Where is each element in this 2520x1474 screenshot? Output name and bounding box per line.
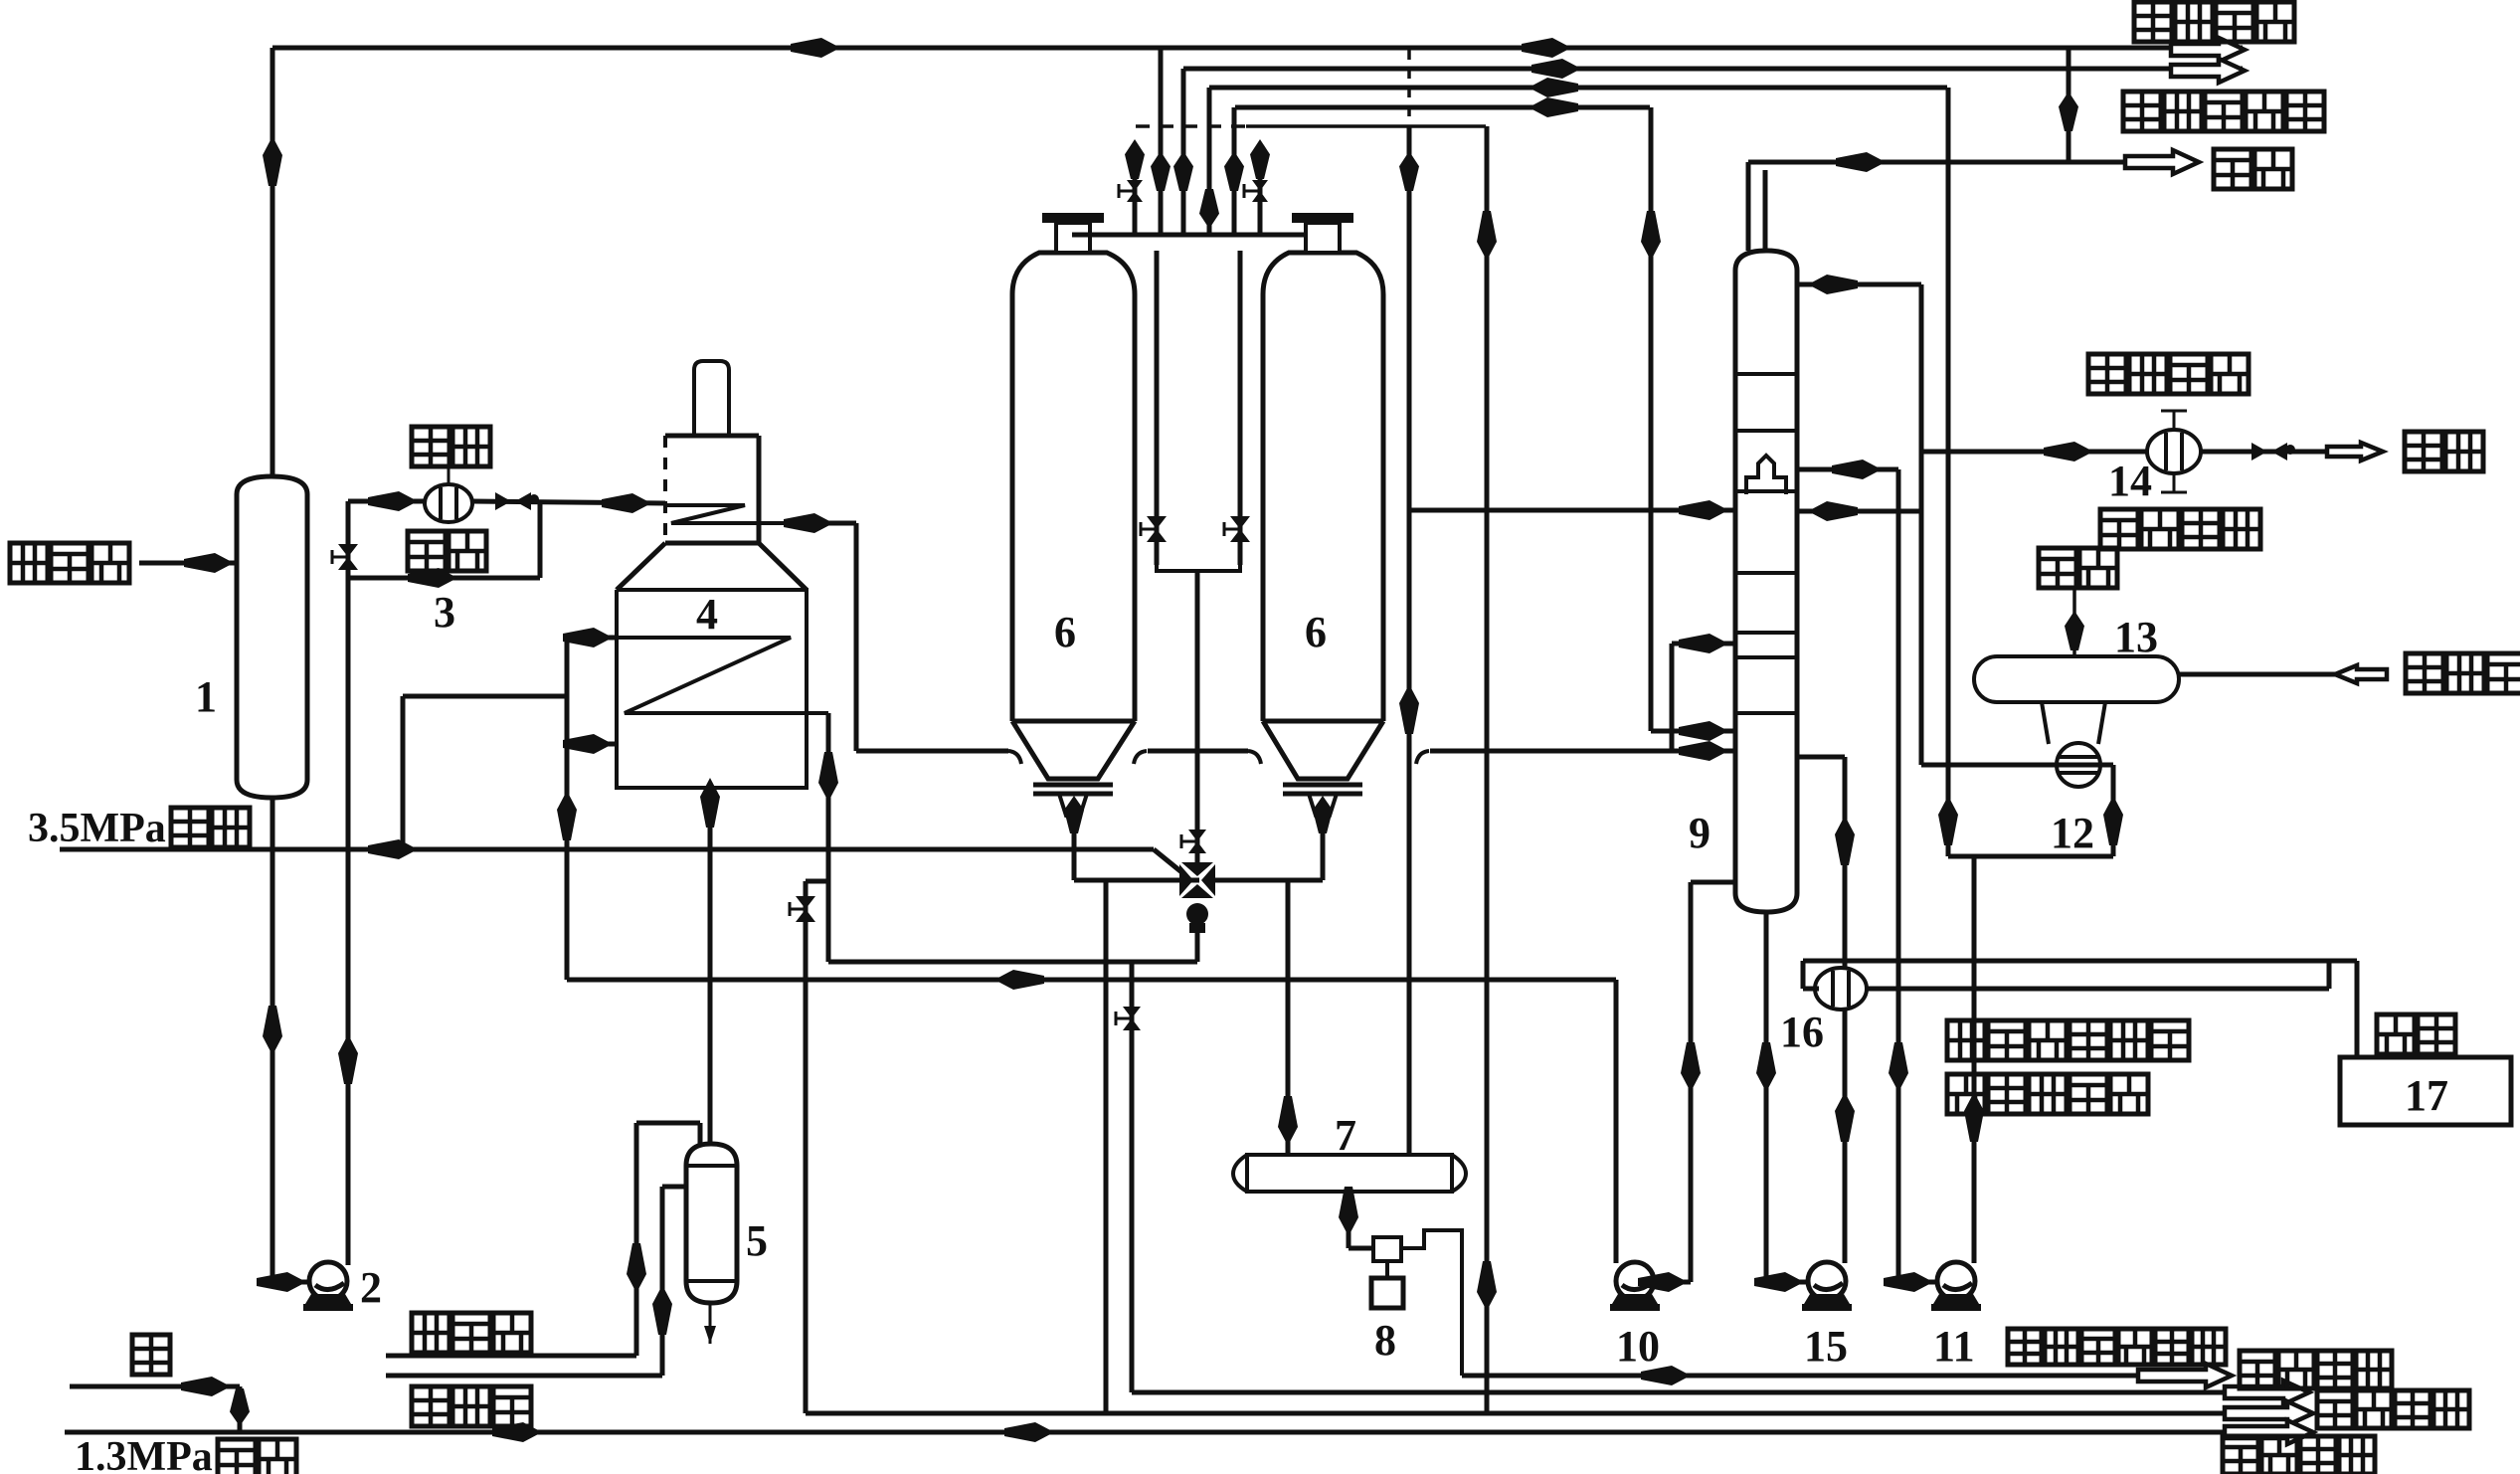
- flow arrow up on x570: [557, 791, 577, 840]
- pump 2: [309, 1262, 347, 1300]
- flow arrow down x1216: [1199, 189, 1219, 229]
- riser x1190 to L2: [1181, 69, 1186, 235]
- svg-text:4: 4: [696, 590, 718, 639]
- label 蒸汽 above exchanger 3: [412, 427, 490, 466]
- label 澄清油 (clarified oil): [10, 543, 129, 583]
- riser with valve x1267: [1258, 145, 1263, 235]
- wire relief header line L5 (dashed left part): [1136, 124, 1246, 128]
- flow arrow into column y286: [1808, 275, 1858, 294]
- wire exchanger3 outlet to furnace: [472, 501, 665, 503]
- wire furnace second burner feed: [567, 742, 617, 747]
- wire flare riser x640: [634, 1123, 639, 1356]
- vessel 1 (feed buffer drum): [237, 476, 307, 798]
- wire vertical x1932: [1919, 284, 1924, 765]
- wire column top return y286: [1797, 282, 1921, 287]
- pump 10: [1616, 1262, 1654, 1300]
- flow arrow on L4 (left): [1529, 97, 1578, 117]
- flow arrow feed: [184, 553, 234, 573]
- flow arrow on L2: [1531, 59, 1581, 79]
- label 蒸汽 above drum13: [2039, 548, 2117, 588]
- wire transfer line segment A: [856, 749, 1008, 754]
- wire four-way bottom drop: [1195, 933, 1200, 962]
- wire oil-gas line y163: [1748, 160, 2125, 165]
- wire pump11 discharge riser x1985: [1972, 856, 1977, 1263]
- wire drum top manifold header: [1072, 233, 1305, 238]
- column overhead pipe: [1746, 162, 1751, 251]
- svg-text:14: 14: [2108, 457, 2152, 505]
- outlet hollow arrow wax: [2327, 443, 2383, 461]
- wire 3.5MPa steam line: [60, 847, 1154, 852]
- heat exchanger 16: [1815, 968, 1867, 1010]
- label 去安全阀线: [2123, 92, 2324, 131]
- wire dashed stub at x1417 to L1: [1407, 50, 1411, 126]
- outlet hollow arrow Ld: [2225, 1420, 2313, 1444]
- wire vessel1 overhead line to L1: [270, 48, 275, 476]
- wire drum7 feed x1298: [1286, 880, 1291, 1155]
- svg-text:11: 11: [1933, 1322, 1975, 1371]
- wire vertical x1417 (L5 to drum7): [1407, 126, 1412, 1155]
- wire well bottom: [1157, 565, 1197, 577]
- label 去火炬: [412, 1313, 531, 1353]
- wire furnace left feed header x570: [565, 638, 570, 980]
- flow arrow Ld left: [492, 1422, 542, 1442]
- wire pump2 discharge riser x350: [346, 501, 351, 1265]
- wire exch12 outlet loop: [2100, 763, 2113, 768]
- wire drop x1138 to burn-off line: [1130, 962, 1135, 1392]
- flow arrow up x2080: [2059, 92, 2078, 131]
- wire water line: [70, 1384, 240, 1389]
- vessel 5: [686, 1144, 737, 1303]
- wire slurry drop x2370: [2355, 961, 2360, 1057]
- valve in well left: [1147, 516, 1167, 529]
- flow arrow on draw y472: [1832, 460, 1882, 479]
- wire pump11 suction drop x1909: [1896, 469, 1901, 1282]
- wire convection outlet down x861: [796, 521, 856, 526]
- four-way switch valve: [1181, 862, 1213, 876]
- svg-text:13: 13: [2114, 613, 2158, 661]
- drum13 to exchanger12 neck: [2042, 702, 2049, 744]
- valve above four-way: [1188, 829, 1206, 841]
- flow arrow Ld mid: [1004, 1422, 1054, 1442]
- flow arrow into column y513: [1679, 500, 1728, 520]
- wire valve8 outlet loop: [1401, 1230, 1462, 1376]
- flow arrow up x1141: [1125, 139, 1145, 179]
- label 去泄压线: [2317, 1390, 2469, 1428]
- flow arrow water down: [230, 1388, 250, 1426]
- flow arrow on L1 left: [791, 38, 840, 58]
- furnace 4 chimney: [694, 361, 729, 436]
- flow arrow up riser x350: [338, 1034, 358, 1084]
- flow arrow up x1855 low: [1835, 1092, 1855, 1142]
- outlet hollow arrow La: [2138, 1364, 2232, 1387]
- box 17 (slurry from FCC): [2340, 1057, 2511, 1125]
- flow arrow down x1909: [1889, 1042, 1908, 1092]
- valve on x1138: [1123, 1007, 1141, 1018]
- valve in well right: [1230, 516, 1250, 529]
- wire soft water line: [2179, 672, 2387, 677]
- flow arrow into pump15: [1754, 1272, 1804, 1292]
- wire line Lb y1400: [1133, 1390, 2225, 1395]
- flow arrow on wax line: [2044, 442, 2093, 461]
- wire relief header line L5 solid part: [1246, 124, 1486, 128]
- flow arrow up right loop: [2103, 796, 2123, 845]
- wire vertical x1660 from L4 to column y735: [1649, 107, 1654, 731]
- wire wax oil line y454: [1921, 450, 2148, 455]
- wire radiant outlet drop x833: [826, 713, 831, 962]
- control valve 8 body: [1373, 1237, 1401, 1261]
- flow arrow second feed: [563, 734, 613, 754]
- flow arrow down x1700: [1681, 1042, 1701, 1092]
- flow arrow into radiant coil: [563, 628, 613, 647]
- wire vertical x1495 (L5 relief drop): [1485, 126, 1490, 1413]
- flow arrow into column y735: [1679, 721, 1728, 741]
- svg-text:17: 17: [2405, 1071, 2448, 1120]
- wire center drop to four-way: [1195, 571, 1200, 867]
- outlet hollow arrow line L2: [2171, 59, 2245, 83]
- wire pump15 discharge riser x1855: [1843, 757, 1848, 1263]
- label 循环上水: [2100, 509, 2260, 549]
- svg-text:3: 3: [434, 588, 455, 637]
- flow arrow up loop riser: [1938, 796, 1958, 845]
- flow arrow down into drum7: [1278, 1096, 1298, 1146]
- inlet hollow arrow 软化水: [2335, 665, 2387, 683]
- wire pump10 suction drop x1625: [1614, 980, 1619, 1263]
- flow arrow up x1167: [1151, 151, 1170, 191]
- flow arrow down on bottoms: [263, 1006, 282, 1055]
- pump 11: [1937, 1262, 1975, 1300]
- wire riser x1681 to column inlet y647: [1670, 644, 1675, 751]
- column 9 vapor hat: [1746, 456, 1786, 494]
- valve on relief branch: [796, 896, 815, 909]
- heat exchanger 14: [2147, 430, 2201, 473]
- furnace 4 transition: [665, 541, 759, 546]
- flow arrow into column y514: [1808, 501, 1858, 521]
- furnace radiant coil: [617, 638, 828, 713]
- steam drum 13: [1974, 656, 2179, 702]
- wire loop riser x1959: [1946, 765, 1951, 856]
- flow arrow into pump11: [1884, 1272, 1933, 1292]
- pump 15: [1808, 1262, 1846, 1300]
- flow arrow down x1495 top: [1477, 211, 1497, 261]
- wire exch12 feed line y769: [1921, 763, 2113, 768]
- wire transfer line segment C: [1416, 751, 1429, 764]
- heat exchanger 12: [2057, 743, 2100, 787]
- exchanger14 bottom tee: [2173, 473, 2176, 492]
- label 油浆自炼油厂: [1947, 1020, 2189, 1060]
- furnace convection coil: [665, 505, 796, 523]
- flow arrow up into right drum: [1313, 796, 1333, 833]
- svg-text:7: 7: [1335, 1111, 1356, 1160]
- label 油气: [2214, 149, 2292, 189]
- label 去普焦污油线: [2008, 1329, 2226, 1365]
- exchanger14 top tee: [2173, 411, 2176, 430]
- wire header line L3: [1209, 86, 1947, 91]
- wire furnace bottom riser x714 to vessel5: [708, 788, 713, 1144]
- valve on riser x350: [338, 544, 358, 557]
- label 油浆: [2377, 1014, 2455, 1054]
- wire right drum downcomer: [1321, 816, 1326, 880]
- check valve on wax outlet: [2251, 443, 2267, 461]
- actuator below four-way: [1186, 903, 1208, 925]
- riser x1241 to L4: [1232, 107, 1237, 235]
- wire column side nozzle to x1700: [1691, 880, 1736, 885]
- flow arrow up x1267: [1250, 139, 1270, 179]
- wire burn-off oil line La y1383: [1462, 1374, 2138, 1379]
- svg-text:3.5MPa: 3.5MPa: [28, 806, 166, 851]
- label 软化水: [2406, 653, 2520, 693]
- flow arrow up x1190: [1173, 151, 1193, 191]
- wire fuel riser x666: [660, 1187, 665, 1376]
- flow arrow into column y647: [1679, 634, 1728, 653]
- wire 1.3MPa steam line Ld y1440: [65, 1430, 2225, 1435]
- svg-text:5: 5: [746, 1216, 768, 1265]
- wire bypass lower line 乏汽: [348, 576, 540, 581]
- flow arrow on La: [1641, 1366, 1691, 1385]
- wire header line L4: [1235, 105, 1650, 110]
- wire clarified oil feed line: [139, 561, 237, 566]
- flow arrow water: [181, 1377, 231, 1396]
- label 去放空线: [2134, 2, 2294, 42]
- vessel5 drain: [709, 1303, 712, 1344]
- label 乏汽: [408, 531, 486, 571]
- flow arrow into pump 2: [257, 1272, 306, 1292]
- horizontal drum 7: [1247, 1155, 1452, 1192]
- wire furnace crossover line y985: [567, 978, 1616, 983]
- wire fuel gas line 燃料气: [386, 1374, 662, 1379]
- check valve after exchanger 3: [495, 492, 511, 510]
- outlet hollow arrow 去放空线: [2171, 38, 2245, 62]
- flow arrow into column y755: [1679, 741, 1728, 761]
- flow arrow on 3.5MPa line: [368, 839, 418, 859]
- coke drum 6 (left): [1012, 253, 1135, 721]
- wire flare line 去火炬: [386, 1354, 636, 1359]
- flow arrow down drum7 outlet: [1339, 1187, 1358, 1236]
- flow arrow down x640: [627, 1243, 646, 1293]
- svg-text:9: 9: [1689, 809, 1710, 857]
- flow arrow up x1985: [1964, 1092, 1984, 1142]
- flow arrow into furnace convection: [602, 493, 651, 513]
- wire transfer line segment B: [1134, 751, 1147, 764]
- coke drum 6 (right): [1263, 253, 1383, 721]
- label 去热水池: [2223, 1436, 2375, 1474]
- flow arrow up x1417 top: [1399, 151, 1419, 191]
- wire vertical x1959 from L3: [1946, 88, 1951, 765]
- valve on riser x1141: [1127, 180, 1143, 191]
- wire wax outlet line: [2201, 450, 2327, 455]
- downcomer x1216 from L3: [1207, 88, 1212, 235]
- label 去烧焦罐: [2240, 1351, 2392, 1388]
- wire drum7 bottom outlet: [1347, 1192, 1351, 1248]
- flow arrow up on overhead: [263, 136, 282, 186]
- flow arrow pump10 discharge: [1638, 1272, 1688, 1292]
- valve on riser x1267: [1252, 180, 1268, 191]
- wire vent header line L1 (to flare/vent): [272, 46, 2243, 51]
- furnace 4 radiant box: [617, 590, 807, 788]
- wire center well right side: [1238, 251, 1243, 565]
- flow arrow up x666: [652, 1285, 672, 1335]
- flow arrow up x1417 mid: [1399, 684, 1419, 734]
- outlet hollow arrow Lc: [2225, 1401, 2313, 1425]
- flow arrow up x1855 high: [1835, 816, 1855, 865]
- flow arrow down x1495 bottom: [1477, 1261, 1497, 1311]
- flow arrow up x1241: [1224, 151, 1244, 191]
- flow arrow on L1 right: [1522, 38, 1571, 58]
- outlet hollow arrow 油气: [2125, 150, 2199, 174]
- svg-text:16: 16: [1780, 1008, 1824, 1056]
- flow arrow up into left drum: [1064, 796, 1084, 833]
- wire diagonal to four-way valve: [1154, 849, 1185, 875]
- flow arrow down x1776: [1756, 1042, 1776, 1092]
- label 燃料气: [412, 1386, 531, 1426]
- riser with valve x1141: [1133, 145, 1138, 235]
- flow arrow down x1660: [1641, 211, 1661, 261]
- column 9 trays: [1735, 372, 1797, 376]
- label 循环回水: [2088, 354, 2249, 394]
- flow arrow up x714: [700, 778, 720, 828]
- wire vessel1 bottom line to pump 2: [270, 798, 275, 1282]
- wire relief branch from x833: [806, 879, 828, 884]
- wire center well left side: [1155, 251, 1160, 565]
- column 9 shell: [1735, 251, 1797, 912]
- flow arrow to exchanger 3: [368, 491, 418, 511]
- flow arrow left on y985: [994, 970, 1044, 990]
- wire branch up x2080 to L1: [2067, 48, 2071, 162]
- wire exch16 shell line lower: [1867, 987, 2329, 992]
- flow arrow on oil gas line: [1836, 152, 1886, 172]
- label 蜡油: [2405, 432, 2483, 471]
- svg-text:1.3MPa: 1.3MPa: [75, 1434, 213, 1474]
- svg-text:2: 2: [360, 1263, 382, 1312]
- heat exchanger 3: [425, 484, 472, 522]
- wire exch16 shell line upper: [1803, 959, 2357, 964]
- wire pump10 discharge: [1654, 1280, 1691, 1285]
- svg-text:6: 6: [1305, 608, 1327, 656]
- flow arrow down x833: [818, 752, 838, 802]
- svg-text:8: 8: [1374, 1316, 1396, 1365]
- flow arrow on L3 (left): [1529, 78, 1578, 97]
- label 催化装置来: [1947, 1074, 2148, 1114]
- wire column inlet y514 from x1932: [1797, 509, 1921, 514]
- flow arrow up steam: [2065, 611, 2084, 650]
- wire exchanger3 inlet line: [348, 499, 425, 504]
- svg-text:10: 10: [1616, 1322, 1660, 1371]
- wire drop x1112: [1104, 880, 1109, 1413]
- label 水: [132, 1335, 170, 1375]
- wire relief line Lc y1421: [806, 1411, 2225, 1416]
- wire left drum downcomer: [1072, 816, 1077, 880]
- outlet hollow arrow Lb: [2225, 1381, 2309, 1404]
- steam tee above exchanger 3: [448, 467, 450, 484]
- wire branch from 3.5MPa riser x405: [401, 696, 406, 849]
- wire column draw y472 to pump11: [1797, 467, 1898, 472]
- furnace 4 convection box (dashed left edge): [665, 434, 759, 439]
- wire safety-valve header line L2: [1183, 67, 2243, 72]
- steam tee above drum13: [2072, 589, 2076, 656]
- svg-text:12: 12: [2051, 809, 2094, 857]
- flow arrow convection coil outlet: [784, 513, 833, 533]
- flow arrow on bypass: [408, 568, 457, 588]
- svg-text:15: 15: [1804, 1322, 1848, 1371]
- riser x1167 to L1: [1159, 48, 1164, 235]
- wire column bottoms to pump15: [1764, 912, 1769, 1282]
- wire transfer to 4way bottom line y967: [828, 960, 1197, 965]
- svg-text:1: 1: [195, 672, 217, 721]
- wire branch to column inlet y513: [1409, 508, 1735, 513]
- svg-text:6: 6: [1054, 608, 1076, 656]
